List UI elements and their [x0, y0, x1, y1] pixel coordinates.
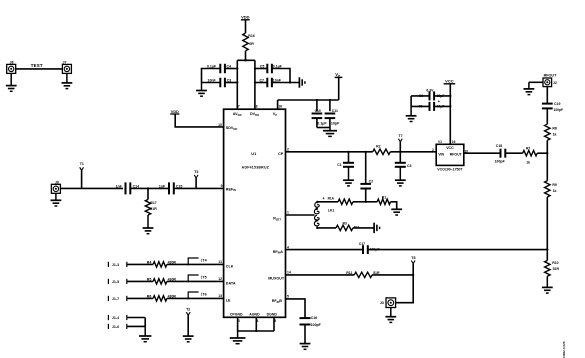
label RFOUT: [544, 73, 557, 77]
svg-text:CP: CP: [278, 152, 284, 156]
capacitor C18 100pF: [495, 144, 506, 163]
ground under R10: [542, 276, 553, 293]
ground under C1: [343, 167, 354, 186]
svg-text:R7: R7: [526, 146, 531, 150]
wire R2 to VCO: [390, 151, 436, 153]
wire C10 C11 join: [317, 118, 330, 127]
svg-text:R3: R3: [343, 222, 348, 226]
svg-text:AGND: AGND: [249, 313, 260, 317]
svg-text:〈T6: 〈T6: [199, 291, 207, 296]
svg-text:C19: C19: [554, 102, 560, 106]
pin 2 CP: [278, 147, 289, 156]
svg-text:VDD: VDD: [241, 15, 250, 20]
test point T3: [194, 170, 198, 188]
label VCC VIN RFOUT: [438, 146, 462, 157]
wire left decoupling join: [201, 68, 203, 83]
wire DGND stub: [273, 317, 275, 331]
ground under J7: [62, 73, 73, 88]
junction R1A/C2/R1: [365, 201, 367, 203]
svg-text:10nF: 10nF: [273, 79, 282, 83]
wire AVDD riser: [236, 60, 238, 109]
wire R1 to ground: [391, 202, 397, 209]
junction C9/VCC: [449, 105, 451, 107]
resistor R6 430R: [147, 295, 177, 302]
wire R8 to R9: [546, 140, 548, 180]
svg-text:C3: C3: [407, 164, 412, 168]
svg-text:LK1: LK1: [328, 209, 335, 213]
pin 4 AGND: [249, 313, 260, 323]
svg-text:4: 4: [287, 245, 289, 249]
svg-text:C5: C5: [260, 65, 265, 69]
wire C2 to node: [365, 189, 367, 202]
label figure number: [562, 341, 566, 358]
wire J1-4/J1-6 join: [144, 318, 146, 327]
svg-text:10pF: 10pF: [437, 105, 445, 109]
svg-text:R9: R9: [552, 183, 557, 187]
capacitor C19 100pF: [542, 102, 563, 112]
svg-text:J8: J8: [10, 61, 14, 65]
svg-text:0R: 0R: [249, 42, 254, 46]
svg-text:〈T4: 〈T4: [199, 257, 207, 262]
svg-text:C16: C16: [311, 316, 317, 320]
wire SDVDD: [175, 114, 223, 127]
power VCC: [444, 79, 456, 84]
capacitor C3: [395, 152, 412, 168]
pin 11 CLK: [218, 260, 233, 268]
resistor R7 1k: [523, 146, 538, 164]
svg-text:CPGND: CPGND: [230, 313, 243, 317]
svg-text:J1-7: J1-7: [112, 297, 119, 301]
ground left decoupling: [196, 83, 207, 97]
ground under C3: [395, 167, 406, 186]
svg-text:100pF: 100pF: [495, 160, 506, 164]
svg-text:C1: C1: [337, 163, 342, 167]
svg-text:J1-4: J1-4: [112, 316, 119, 320]
resistor R3 5k1: [336, 222, 360, 231]
svg-text:0.1µF: 0.1µF: [273, 65, 283, 69]
svg-text:R11: R11: [346, 271, 352, 275]
pin 13 LE: [218, 294, 231, 302]
wire node to R1: [366, 201, 378, 203]
svg-text:100pF: 100pF: [311, 323, 322, 327]
svg-text:C2: C2: [369, 179, 374, 183]
connector J1-4: [108, 315, 145, 320]
svg-text:T3: T3: [194, 170, 198, 174]
svg-text:1k: 1k: [526, 161, 530, 165]
svg-text:R8: R8: [552, 127, 557, 131]
wire DVDD riser: [254, 60, 256, 109]
svg-text:C3: C3: [227, 79, 232, 83]
wire R6 to LE: [167, 297, 224, 299]
wire CPGND stub: [237, 317, 239, 331]
resistor R2: [373, 144, 391, 154]
wire RSET: [286, 214, 315, 216]
wire C18 to R7: [505, 152, 522, 154]
resistor R1A 4k7: [323, 197, 353, 205]
svg-text:CLK: CLK: [226, 264, 234, 268]
pin 16 VP: [273, 105, 282, 117]
test point T2: [186, 308, 190, 336]
svg-text:TEST: TEST: [31, 63, 43, 68]
svg-text:C17: C17: [359, 242, 365, 246]
wire gnd bus: [238, 330, 274, 332]
svg-text:0.1µF: 0.1µF: [207, 65, 217, 69]
pin 10 SDVDD: [218, 123, 237, 131]
capacitor C5 0.1uF: [255, 64, 290, 74]
svg-text:VIN: VIN: [438, 152, 444, 156]
pin 3 CPGND: [230, 313, 243, 323]
svg-text:R4: R4: [147, 261, 152, 265]
resistor R4 430R: [147, 261, 177, 268]
svg-text:V1: V1: [438, 140, 442, 144]
wire right decoupling join: [289, 68, 291, 83]
svg-text:2: 2: [287, 147, 289, 151]
svg-text:ADF4153BRUZ: ADF4153BRUZ: [242, 166, 270, 170]
ground under J3: [385, 308, 396, 323]
wire VP pin stub: [277, 100, 279, 109]
svg-text:8: 8: [256, 105, 258, 109]
wire J2 ground arm: [529, 81, 543, 83]
svg-text:51R: 51R: [553, 267, 560, 271]
wire R5 to DATA: [167, 280, 224, 282]
connector J3: [380, 298, 396, 308]
wire VP drop: [338, 77, 340, 100]
junction C10/VP: [316, 99, 318, 101]
test point T1: [80, 162, 84, 188]
svg-text:12: 12: [218, 277, 222, 281]
test point T7: [398, 134, 402, 152]
svg-text:0.1µF: 0.1µF: [317, 121, 327, 125]
svg-text:J1-3: J1-3: [112, 263, 119, 267]
capacitor C4 0.1uF: [202, 64, 238, 74]
svg-text:5: 5: [287, 294, 289, 298]
ground IC: [230, 331, 246, 344]
svg-text:U1: U1: [251, 151, 257, 156]
wire C15 to REFIN: [174, 187, 224, 189]
connector J1-7: [108, 296, 153, 301]
wire C16 to ground: [304, 325, 306, 344]
connector J8: [7, 61, 16, 74]
svg-text:R2: R2: [376, 144, 381, 148]
svg-text:22µF: 22µF: [437, 94, 445, 98]
resistor R11 51R: [346, 271, 380, 278]
wire C17 to rail: [368, 249, 547, 251]
junction C4/riser: [236, 67, 238, 69]
wire bus AVDD-DVDD: [237, 59, 255, 61]
wire R3 to ground: [353, 227, 374, 229]
svg-text:T7: T7: [398, 134, 402, 138]
pin 5 DGND: [267, 313, 278, 323]
junction AGND bus: [255, 330, 257, 332]
ground under T2: [183, 336, 194, 342]
svg-text:VCC: VCC: [445, 79, 454, 84]
junction C2: [365, 151, 367, 153]
capacitor C2: [360, 152, 373, 189]
resistor R17 51R: [145, 188, 157, 215]
svg-text:9: 9: [221, 184, 223, 188]
capacitor C17 100pF: [359, 242, 381, 254]
capacitor C3 10nF: [202, 78, 238, 88]
capacitor C10 0.1uF: [312, 100, 328, 125]
op-amp U1 ADF4153 box: [224, 109, 286, 317]
svg-text:51R: 51R: [150, 207, 157, 211]
power VDD (SDVDD): [170, 110, 179, 114]
wire node to J3: [396, 275, 414, 303]
capacitor C14 1nF: [116, 182, 139, 194]
test point T5: [187, 274, 206, 282]
junction C6/VCC: [449, 95, 451, 97]
svg-text:1: 1: [287, 211, 289, 215]
svg-text:DGND: DGND: [267, 313, 278, 317]
capacitor C1: [337, 152, 354, 167]
ground VP decoupling: [323, 128, 337, 137]
junction R16/bus: [244, 59, 246, 61]
svg-text:T1: T1: [80, 162, 84, 166]
wire J8 to J7: [16, 68, 63, 70]
connector J1-5: [108, 279, 153, 284]
test point T4: [187, 257, 206, 265]
wire VDD to R16: [245, 20, 247, 33]
test point T6: [187, 291, 206, 299]
resistor R10 51R: [545, 261, 560, 277]
wire R4 to CLK: [167, 263, 224, 265]
link LK1: [314, 201, 334, 229]
junction C5/riser: [254, 67, 256, 69]
svg-text:C4: C4: [227, 65, 232, 69]
svg-text:C6: C6: [419, 94, 423, 98]
svg-text:R17: R17: [150, 201, 156, 205]
svg-text:R5: R5: [147, 278, 152, 282]
svg-text:C7: C7: [260, 79, 265, 83]
svg-text:10nF: 10nF: [208, 79, 217, 83]
junction R17: [147, 187, 149, 189]
resistor R9 1k: [545, 181, 557, 197]
svg-text:4: 4: [323, 197, 325, 201]
wire VP horizontal: [278, 99, 339, 101]
wire RFINB: [286, 299, 306, 318]
pin 2 VIN: [432, 148, 434, 152]
connector J7: [62, 60, 71, 73]
wire CP line: [286, 151, 373, 153]
pin 9 REFIN: [221, 184, 236, 192]
connector J9: [51, 180, 60, 193]
wire R9 to R10: [546, 197, 548, 261]
junction MUXOUT node: [412, 274, 414, 276]
junction C3/riser: [236, 81, 238, 83]
svg-text:C10: C10: [315, 109, 321, 113]
svg-text:RFOUT: RFOUT: [450, 152, 463, 156]
wire VCC caps join: [410, 96, 412, 107]
capacitor C11 10pF: [325, 100, 340, 125]
pin 7 AVDD: [233, 105, 242, 117]
wire J2 to C19: [546, 87, 548, 104]
wire LK1 top branch: [317, 201, 338, 203]
svg-text:〈T5: 〈T5: [199, 274, 207, 279]
power VP: [335, 72, 343, 78]
wire AGND stub: [255, 317, 257, 331]
svg-text:R1: R1: [382, 196, 387, 200]
ground under J8: [6, 73, 17, 91]
svg-text:04662-0-026: 04662-0-026: [562, 341, 566, 358]
svg-text:T8: T8: [411, 256, 415, 260]
junction C3/T7: [399, 151, 401, 153]
wire R7 to rail: [537, 152, 547, 154]
svg-text:1k: 1k: [553, 189, 557, 193]
pin 12 DATA: [218, 277, 236, 285]
junction R7/rail: [546, 152, 548, 154]
label VCO190-1750T: [437, 167, 463, 171]
capacitor C16 100pF: [300, 316, 322, 327]
svg-text:J7: J7: [63, 60, 67, 64]
svg-text:LE: LE: [226, 298, 231, 302]
ground left of J2: [524, 82, 535, 94]
wire VCC drop: [449, 84, 451, 145]
pin 8 DVDD: [250, 105, 259, 117]
svg-text:R1A: R1A: [328, 197, 335, 201]
ground under R1: [391, 209, 402, 215]
svg-text:T2: T2: [186, 308, 190, 312]
connector J2: [543, 78, 557, 87]
wire MUXOUT: [286, 274, 355, 276]
svg-text:2: 2: [432, 148, 434, 152]
capacitor C6 22uF tant: [411, 88, 450, 104]
svg-text:13: 13: [218, 294, 222, 298]
wire J9 to C14: [60, 187, 123, 189]
svg-text:16: 16: [278, 105, 282, 109]
pin 4 RFINA: [273, 245, 289, 254]
wire RFINA to C17: [286, 249, 364, 251]
capacitor C15 1nF: [159, 182, 182, 194]
svg-text:R16: R16: [248, 34, 255, 38]
junction C7/riser: [254, 81, 256, 83]
svg-text:11: 11: [218, 260, 222, 264]
svg-text:1nF: 1nF: [159, 184, 166, 188]
resistor R1: [377, 196, 390, 205]
ground VCC decoupling: [406, 106, 417, 121]
junction C11/VP: [329, 99, 331, 101]
wire R16 to rail bus: [245, 51, 247, 61]
junction C1: [347, 151, 349, 153]
svg-text:DATA: DATA: [226, 281, 236, 285]
svg-text:J2: J2: [553, 81, 557, 85]
resistor R8 1k: [545, 124, 557, 140]
label ADF4153BRUZ: [242, 166, 270, 170]
svg-text:C11: C11: [332, 109, 338, 113]
svg-text:1k: 1k: [553, 133, 557, 137]
svg-text:100pF: 100pF: [554, 108, 564, 112]
svg-text:16: 16: [452, 140, 456, 144]
ground J1 returns: [139, 326, 151, 341]
svg-text:C18: C18: [496, 144, 502, 148]
svg-text:VCC: VCC: [446, 146, 454, 150]
ground under J9: [51, 193, 62, 206]
junction RFINA/rail: [546, 248, 548, 250]
pin 5 RFINB: [272, 294, 289, 303]
svg-text:J3: J3: [380, 301, 384, 305]
capacitor C9 10pF: [411, 102, 450, 111]
ground sideways R3: [374, 223, 380, 233]
svg-text:14: 14: [287, 271, 291, 275]
svg-text:R6: R6: [147, 295, 152, 299]
ground sideways decoupling: [299, 77, 305, 87]
svg-text:VDD: VDD: [171, 110, 179, 114]
label U1: [251, 151, 257, 156]
power VDD (top): [241, 15, 250, 20]
transistor V1 VCO box: [436, 140, 464, 165]
svg-text:1nF: 1nF: [116, 184, 123, 188]
connector J1-3: [108, 262, 153, 267]
wire LK1 bottom branch: [317, 227, 336, 229]
wire R1A to node: [353, 201, 366, 203]
label TEST: [31, 63, 43, 68]
svg-text:6.3V: 6.3V: [426, 88, 434, 92]
ground under C16: [300, 343, 311, 349]
wire R11 to node: [372, 274, 413, 276]
wire VCO output: [464, 152, 500, 154]
pin 10 RFOUT: [465, 149, 469, 153]
svg-text:RFOUT: RFOUT: [544, 73, 557, 77]
pin 14 MUXOUT: [268, 271, 291, 281]
resistor R5 430R: [147, 278, 177, 285]
test point T8: [411, 256, 415, 275]
connector J1-6: [108, 324, 145, 329]
ground under R17: [143, 215, 154, 234]
wire C14 to C15: [130, 187, 168, 189]
wire C19 to R8: [546, 108, 548, 124]
svg-text:MUXOUT: MUXOUT: [268, 276, 285, 280]
pin 1 RSET: [273, 211, 289, 222]
svg-text:VCO190–1750T: VCO190–1750T: [437, 167, 463, 171]
svg-text:7: 7: [238, 105, 240, 109]
svg-text:C9: C9: [418, 105, 422, 109]
svg-text:J1-5: J1-5: [112, 280, 119, 284]
junction right decoupling: [289, 81, 291, 83]
svg-text:R10: R10: [552, 261, 558, 265]
svg-text:J1-6: J1-6: [112, 325, 119, 329]
resistor R16: [243, 33, 255, 51]
svg-text:J9: J9: [55, 180, 59, 184]
svg-text:10pF: 10pF: [331, 121, 340, 125]
capacitor C7 10nF: [255, 78, 300, 88]
